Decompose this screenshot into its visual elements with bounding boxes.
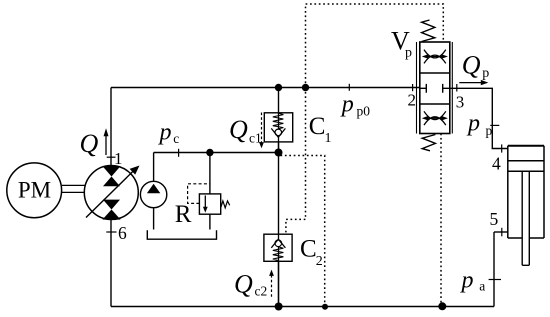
node valve drain on tank line [438, 302, 446, 310]
svg-text:p: p [405, 46, 412, 61]
tick p_c [178, 149, 180, 157]
tank [147, 230, 216, 239]
wire pump port 1 riser [110, 88, 112, 166]
wire relief valve to tank [209, 214, 211, 229]
svg-text:PM: PM [18, 178, 51, 203]
wire C1 branch [278, 88, 280, 153]
tick port 5 [501, 228, 503, 237]
wire charge pump riser [153, 153, 155, 182]
svg-text:Q: Q [234, 270, 253, 299]
svg-text:2: 2 [408, 90, 417, 109]
check valve C1 [264, 113, 292, 142]
pump (variable displacement, bidirectional) [84, 166, 138, 220]
svg-text:R: R [175, 201, 192, 228]
node C2 bottom on tank line [275, 303, 283, 311]
valve Vp bottom position orifice [424, 111, 446, 125]
check valve C2 [264, 234, 292, 261]
svg-text:p: p [486, 123, 493, 138]
tick port 1 [107, 156, 116, 158]
node pilot on tank line [322, 304, 328, 310]
wire p_c line [154, 152, 279, 154]
charge pump [140, 181, 166, 207]
valve Vp centre position blocked ports [420, 84, 450, 93]
valve Vp proportional rails [417, 42, 453, 134]
svg-text:c1: c1 [249, 130, 262, 145]
arrow Q_c1 (dashed) [261, 113, 263, 143]
svg-text:5: 5 [490, 209, 499, 229]
tick port 2 [412, 84, 414, 91]
pilot line from p_c node to tank line (dotted) [281, 156, 325, 304]
arrow Q (pump output flow) [105, 134, 107, 155]
svg-text:1: 1 [114, 149, 123, 168]
arrow Q_c2 (dashed) [271, 276, 273, 297]
svg-text:p: p [158, 120, 172, 146]
pilot line from node p_p0 to valve top (dotted) [306, 4, 444, 88]
svg-text:1: 1 [325, 131, 332, 146]
wire p_a riser [493, 232, 495, 307]
cylinder piston [508, 161, 544, 172]
svg-text:4: 4 [492, 154, 501, 174]
valve Vp bottom spring [422, 135, 435, 151]
svg-text:C: C [309, 113, 326, 140]
relief valve pilot (dashed) [188, 184, 210, 204]
shaft PM to pump (double line) [62, 185, 85, 192]
svg-text:p: p [340, 91, 354, 117]
svg-text:Q: Q [229, 115, 248, 144]
pump variable-displacement arrow [86, 171, 134, 218]
cylinder rod [522, 171, 529, 265]
tick p_a [489, 279, 501, 281]
node C1 top on main line [275, 84, 282, 91]
svg-text:a: a [479, 279, 485, 294]
cylinder [508, 145, 544, 147]
svg-text:p0: p0 [357, 104, 371, 119]
svg-text:p: p [482, 66, 489, 81]
arrow Q_p [459, 82, 481, 84]
svg-text:C: C [300, 235, 317, 262]
valve Vp body (3 position) [420, 42, 450, 134]
valve Vp top position orifice [424, 50, 446, 64]
wire main supply line (node 1 to valve port 2) [111, 87, 420, 89]
pilot line node p_p0 down to C2 top (dotted) [286, 88, 306, 235]
pilot line valve bottom to tank line (dotted) [440, 134, 442, 304]
wire valve port 3 to cylinder port 4 [450, 88, 508, 148]
svg-text:Q: Q [462, 50, 481, 79]
tick port 4 [501, 144, 503, 152]
relief valve R [199, 194, 220, 214]
node p_c junction to R [206, 149, 213, 156]
wire C2 branch [278, 153, 280, 307]
wire cylinder port 5 stub [494, 231, 508, 233]
wire pump port 6 drop [110, 220, 112, 307]
wire relief valve feed [209, 153, 211, 194]
svg-text:c2: c2 [255, 284, 268, 299]
node p_c / C1 / C2 junction [275, 149, 283, 157]
svg-text:p: p [460, 267, 474, 293]
svg-text:6: 6 [118, 223, 127, 243]
svg-text:c: c [173, 131, 179, 146]
tick port 6 [106, 231, 116, 233]
wire bottom return line [111, 306, 494, 308]
svg-text:3: 3 [456, 93, 465, 112]
motor PM [7, 163, 62, 218]
wire charge pump to tank [153, 208, 155, 230]
relief valve spring [221, 201, 230, 208]
valve Vp top spring [422, 20, 435, 42]
tick p_p0 [348, 84, 350, 91]
svg-text:2: 2 [316, 254, 323, 269]
svg-text:p: p [466, 110, 480, 136]
svg-text:Q: Q [80, 129, 99, 158]
tick port 3 [456, 84, 458, 92]
tick p_p [490, 124, 499, 126]
node pilot tap on main line [302, 84, 309, 91]
